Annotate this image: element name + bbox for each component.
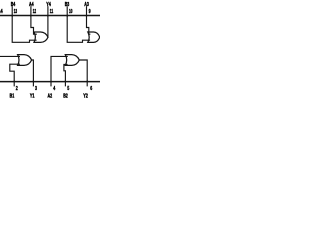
svg-text:10: 10 [69, 9, 72, 15]
pin 6 stub (Y2) [86, 81, 88, 86]
OR gate U1a [18, 55, 32, 66]
wire Y1 from U1a output [32, 60, 34, 82]
pin 11 stub (Y4) [47, 7, 49, 16]
pin 10 stub (B3) [66, 7, 68, 16]
svg-text:5: 5 [67, 86, 69, 92]
svg-text:Y1: Y1 [30, 93, 35, 99]
wire B1 to U1a lower input [10, 64, 20, 81]
OR gate U1d [34, 32, 48, 42]
svg-text:A2: A2 [48, 93, 53, 99]
OR gate U1b [65, 55, 79, 66]
svg-text:A4: A4 [29, 2, 34, 8]
svg-text:Y2: Y2 [83, 93, 88, 99]
pin 3 stub (Y1) [32, 81, 34, 86]
wire B2 to U1b lower input [64, 64, 67, 81]
svg-text:B4: B4 [11, 2, 16, 8]
svg-text:9: 9 [89, 9, 91, 15]
pin 2 stub (B1) [13, 81, 15, 86]
pin 9 stub (A3) [86, 7, 88, 16]
pin 12 stub (A4) [30, 7, 32, 16]
svg-text:B3: B3 [65, 2, 70, 8]
wire B4 to U1d lower input [12, 16, 36, 43]
svg-text:12: 12 [33, 9, 36, 15]
pin 13 stub (B4) [11, 7, 13, 16]
svg-text:Y4: Y4 [46, 2, 51, 8]
wire Y2 from U1b output [79, 60, 87, 82]
wire Y4 from U1d output [47, 16, 49, 38]
wire A4 to U1d upper input [31, 16, 36, 35]
svg-text:13: 13 [14, 9, 17, 15]
wire A3 to U1c upper input [87, 16, 90, 35]
pin 5 stub (B2) [64, 81, 66, 86]
svg-text:6: 6 [90, 86, 92, 92]
svg-text:B1: B1 [10, 93, 15, 99]
svg-text:B2: B2 [63, 93, 68, 99]
svg-text:4: 4 [53, 86, 55, 92]
IC body top edge [0, 15, 100, 17]
svg-text:11: 11 [50, 9, 53, 15]
OR gate U1c [88, 32, 100, 42]
svg-text:A3: A3 [84, 2, 89, 8]
pin 4 stub (A2) [50, 81, 52, 86]
wire A2 to U1b upper input [51, 56, 67, 81]
IC body bottom edge [0, 81, 100, 83]
wire B3 to U1c lower input [67, 16, 89, 43]
wire A1 to U1a upper input [0, 55, 19, 57]
svg-text:3: 3 [35, 86, 37, 92]
svg-text:2: 2 [16, 86, 18, 92]
svg-text:14: 14 [0, 9, 3, 15]
